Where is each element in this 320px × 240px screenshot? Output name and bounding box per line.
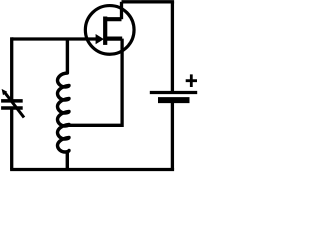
battery B1 plus sign	[186, 74, 197, 87]
transistor Q1 channel bar	[103, 17, 107, 45]
wire drain lead vertical to top rail	[120, 2, 123, 19]
wire right rail lower (battery negative to bottom rail)	[171, 101, 174, 170]
battery B1 positive plate (long)	[150, 91, 197, 94]
wire top rail	[122, 0, 175, 3]
capacitor C1 top plate	[1, 99, 23, 103]
capacitor C1 variable arrowhead	[2, 89, 8, 95]
battery B1 negative plate (short thick)	[158, 97, 190, 103]
transistor Q1 source bar	[104, 36, 123, 40]
wire left rail lower segment	[10, 108, 13, 170]
wire bottom rail	[10, 168, 174, 171]
capacitor C1 variable arrow shaft	[5, 93, 24, 118]
wire source lead vertical and tap wire to coil	[67, 39, 122, 126]
transistor Q1 drain bar	[104, 17, 122, 21]
wire gate line from left rail to JFET gate	[12, 37, 97, 40]
transistor Q1 circle body	[85, 6, 134, 55]
wire left rail upper segment	[10, 37, 13, 101]
capacitor C1 bottom plate	[1, 106, 23, 110]
transistor Q1 gate arrowhead	[96, 34, 104, 44]
wire right rail upper (top rail to battery positive)	[171, 2, 174, 92]
inductor L1 coil with leads	[58, 38, 70, 170]
